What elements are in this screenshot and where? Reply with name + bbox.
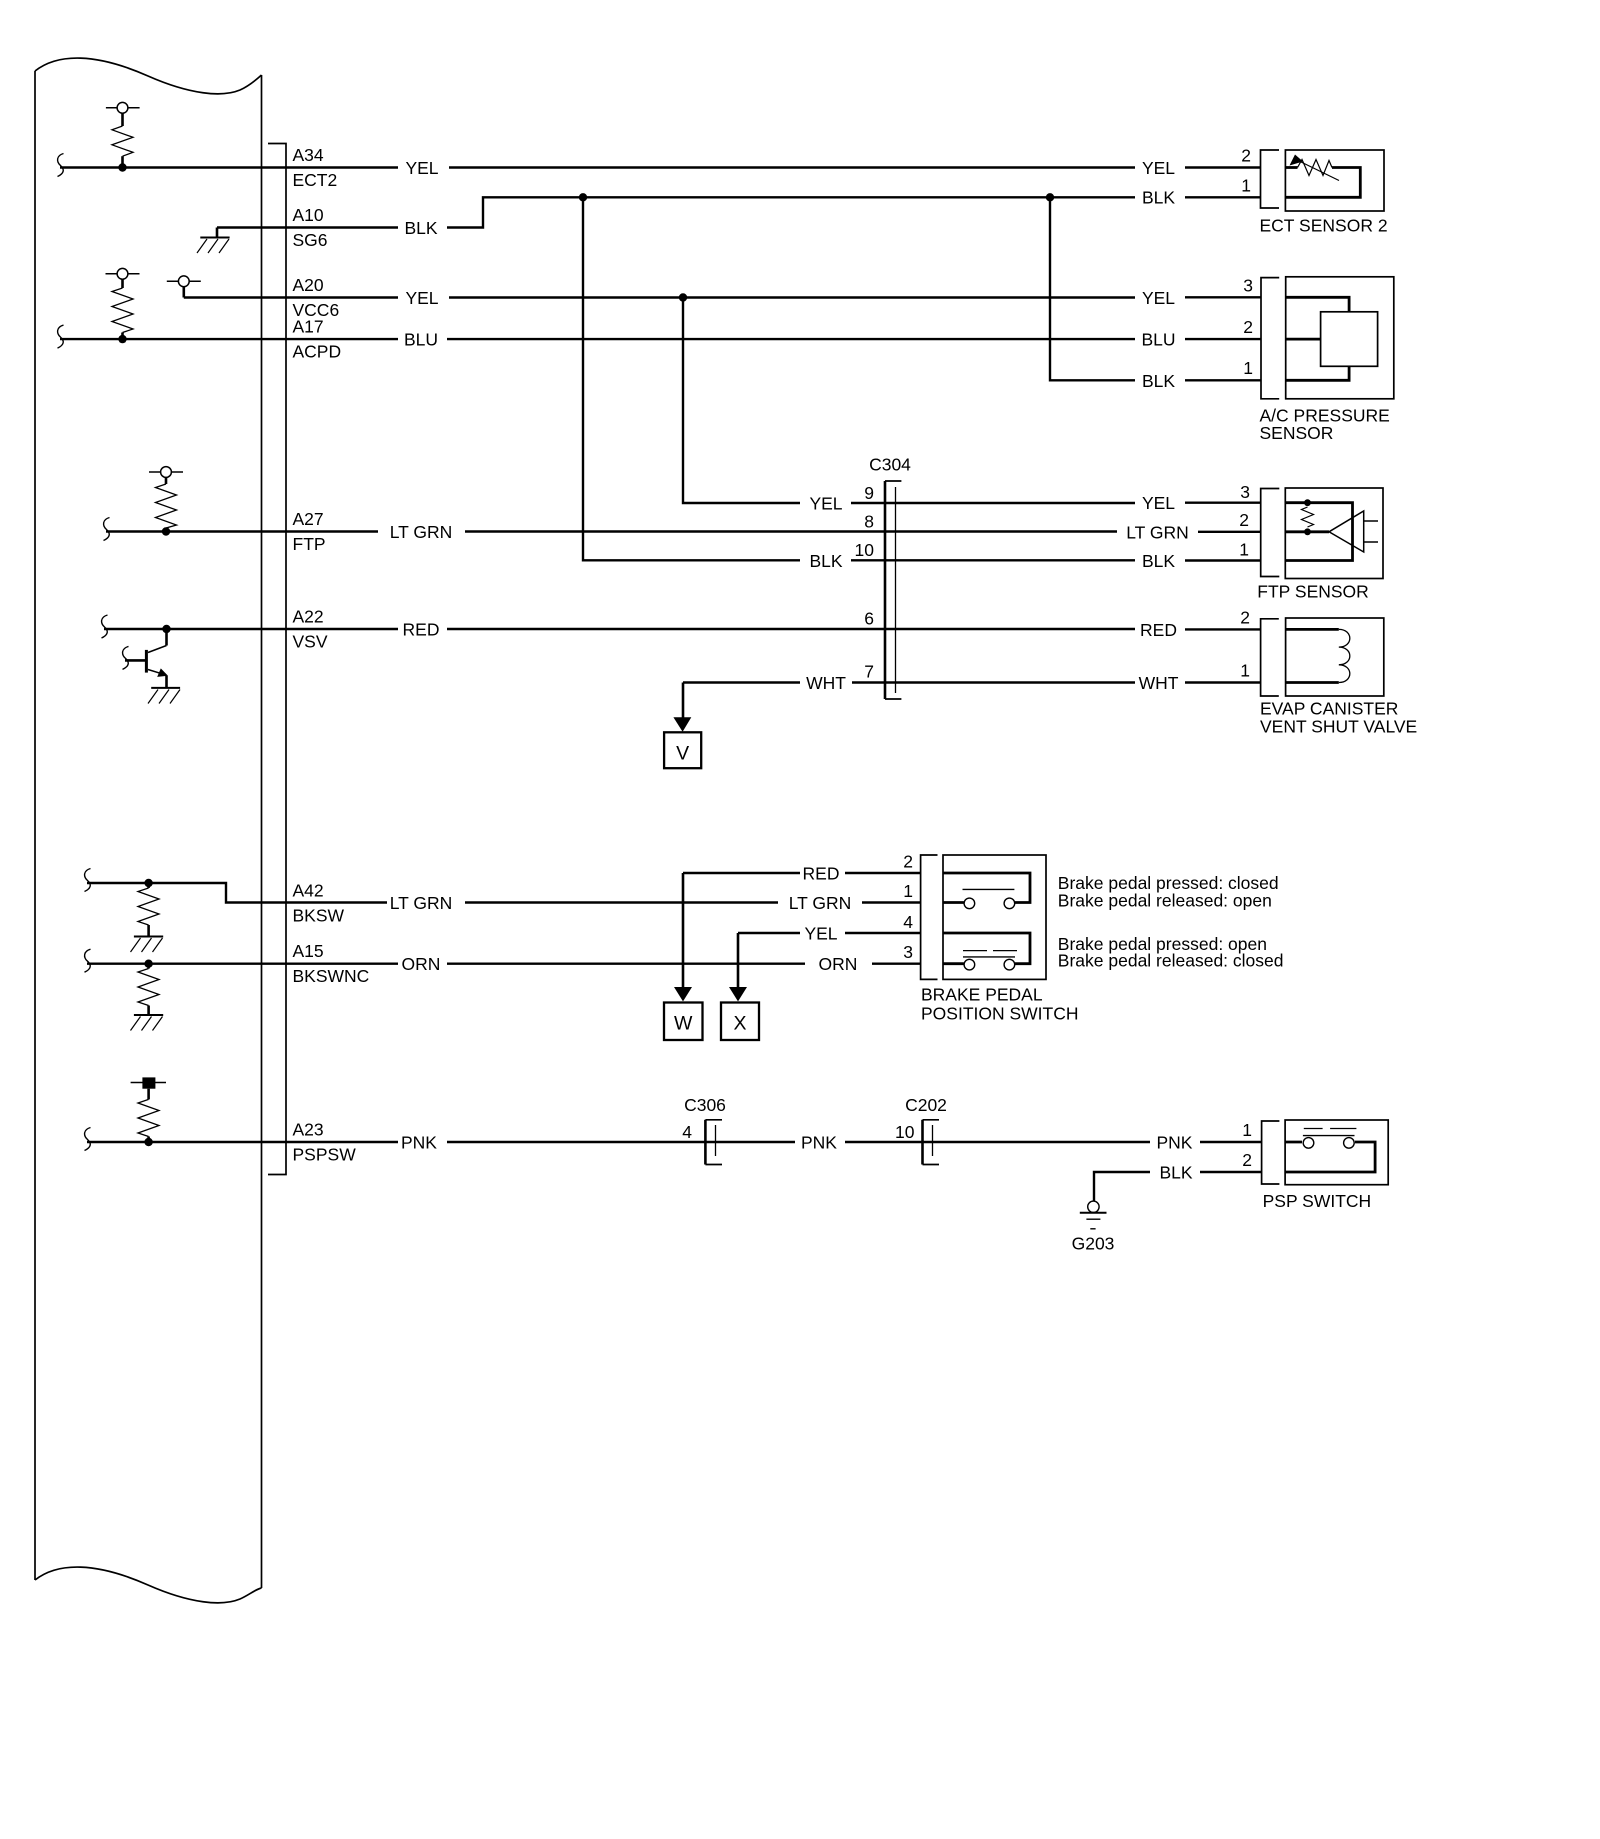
ignition feed resistor at A23	[131, 1077, 166, 1142]
arrow to page W	[674, 873, 692, 1001]
svg-text:BLU: BLU	[404, 330, 438, 350]
wire A27 LT GRN left	[106, 530, 378, 532]
svg-text:6: 6	[864, 609, 874, 629]
svg-text:ORN: ORN	[402, 954, 441, 974]
svg-text:YEL: YEL	[1142, 493, 1175, 513]
svg-text:10: 10	[895, 1122, 915, 1142]
connector bracket ECT sensor	[1261, 150, 1280, 208]
switch 2 normally-closed inside brake switch	[943, 933, 1030, 970]
ground at SG6 inside ECM	[197, 228, 230, 254]
junction dot BLK x1050	[1046, 193, 1054, 201]
pigtail transistor base	[123, 646, 129, 669]
svg-text:2: 2	[1240, 608, 1250, 628]
svg-text:A10: A10	[293, 205, 324, 225]
wire BLU to A/C sensor pin 2	[1185, 338, 1261, 340]
svg-text:3: 3	[1243, 276, 1253, 296]
svg-text:RED: RED	[803, 864, 840, 884]
svg-text:LT GRN: LT GRN	[1126, 522, 1189, 542]
PSP switch box	[1285, 1120, 1388, 1185]
wire A42 with step down	[87, 883, 387, 903]
svg-text:POSITION SWITCH: POSITION SWITCH	[921, 1004, 1079, 1024]
resistor pull-up at A34 with 5V terminal	[106, 102, 140, 167]
svg-text:BLK: BLK	[404, 218, 437, 238]
svg-text:1: 1	[1242, 1120, 1252, 1140]
svg-text:ECT SENSOR 2: ECT SENSOR 2	[1260, 216, 1388, 236]
EVAP canister vent shut valve box	[1286, 618, 1384, 696]
wire YEL to ECT sensor pin 2	[1185, 166, 1261, 168]
wire YEL through C304	[851, 502, 1135, 504]
svg-text:ORN: ORN	[819, 954, 858, 974]
wire LT GRN to FTP sensor pin 2	[1198, 531, 1261, 533]
junction dot A34	[118, 163, 126, 171]
svg-text:VSV: VSV	[293, 632, 328, 652]
wire RED segment to pin 2	[845, 872, 921, 874]
wire ORN segment to pin 3	[872, 963, 921, 965]
svg-text:A17: A17	[293, 317, 324, 337]
FTP sensor box	[1285, 488, 1383, 579]
wire YEL drop to C304 pin 9	[683, 298, 800, 504]
svg-text:PNK: PNK	[801, 1133, 837, 1153]
resistor to ground at A42	[138, 883, 159, 937]
connector bracket A/C pressure sensor	[1261, 278, 1279, 399]
svg-text:A23: A23	[293, 1120, 324, 1140]
svg-text:FTP: FTP	[293, 534, 326, 554]
svg-text:FTP SENSOR: FTP SENSOR	[1257, 582, 1369, 602]
wire YEL segment to pin 4	[845, 932, 921, 934]
wire A22 RED left	[104, 628, 398, 630]
ECT sensor 2 box	[1285, 150, 1384, 211]
wire BLK middle with step up	[447, 197, 1135, 227]
svg-text:1: 1	[1243, 358, 1253, 378]
ground at A42 resistor	[131, 937, 164, 953]
solenoid coil inside EVAP valve	[1286, 629, 1350, 682]
junction dot A27	[162, 527, 170, 535]
wire A15 ORN left	[87, 963, 398, 965]
svg-text:4: 4	[682, 1122, 692, 1142]
junction dot A22	[162, 625, 170, 633]
svg-text:3: 3	[903, 942, 913, 962]
connector bracket brake pedal switch	[921, 855, 938, 979]
pigtail A15	[85, 949, 91, 972]
svg-text:A34: A34	[293, 145, 324, 165]
junction dot YEL x683	[679, 293, 687, 301]
svg-text:G203: G203	[1072, 1234, 1115, 1254]
wire YEL to FTP sensor pin 3	[1185, 502, 1261, 504]
svg-text:YEL: YEL	[1142, 288, 1175, 308]
junction dot A15	[144, 960, 152, 968]
wire A20 YEL left	[184, 296, 398, 298]
svg-text:7: 7	[864, 662, 874, 682]
svg-text:BLK: BLK	[1142, 551, 1175, 571]
svg-text:A22: A22	[293, 607, 324, 627]
wire A10 BLK left	[217, 226, 398, 228]
brake pedal position switch box	[943, 855, 1046, 979]
svg-text:PSP SWITCH: PSP SWITCH	[1263, 1191, 1372, 1211]
wire RED from page W to switch pin 2	[683, 872, 800, 874]
arrow to page V	[673, 683, 691, 732]
wire A34 YEL left	[60, 166, 398, 168]
pigtail A42	[85, 869, 91, 892]
wire PNK through C202	[845, 1141, 1150, 1143]
pigtail A23	[85, 1128, 91, 1151]
junction dot A17	[118, 335, 126, 343]
svg-text:C306: C306	[684, 1095, 726, 1115]
svg-text:LT GRN: LT GRN	[390, 522, 453, 542]
svg-text:V: V	[676, 743, 689, 765]
wire LT GRN to switch pin 1	[862, 901, 921, 903]
thermistor inside ECT sensor 2	[1285, 155, 1360, 198]
wire WHT through C304	[852, 681, 1135, 683]
5V terminal at VCC6	[167, 276, 201, 298]
svg-text:C304: C304	[869, 455, 911, 475]
wire YEL middle	[449, 296, 1135, 298]
svg-text:YEL: YEL	[405, 288, 438, 308]
ground at transistor emitter	[148, 688, 180, 704]
svg-text:ACPD: ACPD	[293, 342, 342, 362]
svg-text:ECT2: ECT2	[293, 170, 338, 190]
wire A34 YEL middle	[449, 166, 1135, 168]
svg-text:PNK: PNK	[1157, 1133, 1193, 1153]
resistor to ground at A15	[138, 964, 159, 1015]
page reference box V	[664, 732, 701, 768]
svg-text:BKSWNC: BKSWNC	[293, 966, 370, 986]
svg-text:1: 1	[1240, 661, 1250, 681]
wire BLK to FTP sensor pin 1	[1185, 559, 1261, 561]
svg-text:8: 8	[864, 512, 874, 532]
wire LT GRN middle	[465, 901, 778, 903]
svg-text:VENT SHUT VALVE: VENT SHUT VALVE	[1260, 717, 1417, 737]
svg-text:Brake pedal released: closed: Brake pedal released: closed	[1058, 950, 1284, 970]
wire WHT from C304 pin 7	[683, 681, 800, 683]
wire YEL to A/C sensor pin 3	[1185, 296, 1261, 298]
page reference box X	[721, 1003, 759, 1041]
wire BLK to ECT sensor pin 1	[1185, 196, 1261, 198]
svg-text:9: 9	[864, 483, 874, 503]
svg-text:BLK: BLK	[1159, 1163, 1192, 1183]
svg-text:3: 3	[1240, 482, 1250, 502]
svg-text:YEL: YEL	[1142, 158, 1175, 178]
wire BLU middle	[447, 338, 1135, 340]
svg-text:SENSOR: SENSOR	[1260, 423, 1334, 443]
wire RED to EVAP valve pin 2	[1185, 628, 1261, 630]
svg-text:EVAP CANISTER: EVAP CANISTER	[1260, 699, 1398, 719]
switch contacts inside PSP switch	[1285, 1129, 1375, 1173]
svg-text:LT GRN: LT GRN	[390, 893, 453, 913]
svg-text:YEL: YEL	[405, 158, 438, 178]
svg-text:1: 1	[903, 881, 913, 901]
transistor Q1 at A22	[125, 629, 168, 688]
svg-text:10: 10	[855, 540, 875, 560]
svg-text:BRAKE PEDAL: BRAKE PEDAL	[921, 985, 1043, 1005]
arrow to page X	[729, 933, 747, 1001]
svg-text:PSPSW: PSPSW	[293, 1145, 357, 1165]
svg-text:BLK: BLK	[809, 551, 842, 571]
svg-text:BLK: BLK	[1142, 188, 1175, 208]
svg-text:Brake pedal released: open: Brake pedal released: open	[1058, 890, 1272, 910]
wire BLK drop to C304 pin 10	[583, 197, 800, 560]
svg-text:C202: C202	[905, 1095, 947, 1115]
svg-text:YEL: YEL	[809, 494, 842, 514]
svg-text:BKSW: BKSW	[293, 905, 345, 925]
wire PNK through C306	[447, 1141, 795, 1143]
ECM connector bracket	[268, 144, 286, 1175]
svg-text:2: 2	[903, 852, 913, 872]
svg-text:LT GRN: LT GRN	[789, 893, 852, 913]
svg-text:A27: A27	[293, 509, 324, 529]
svg-text:PNK: PNK	[401, 1133, 437, 1153]
wire BLK segment to pin 1	[1185, 379, 1261, 381]
wire YEL from page X to switch pin 4	[738, 932, 800, 934]
connector bracket EVAP valve	[1261, 619, 1279, 696]
svg-text:WHT: WHT	[1139, 673, 1179, 693]
wire WHT to EVAP valve pin 1	[1185, 681, 1261, 683]
svg-text:4: 4	[903, 912, 913, 932]
wire ORN middle	[447, 963, 805, 965]
wire RED middle through C304 pin 6	[447, 628, 1135, 630]
svg-text:A15: A15	[293, 941, 324, 961]
svg-text:X: X	[733, 1013, 746, 1035]
wire BLK to A/C sensor pin 1	[1050, 197, 1135, 380]
svg-text:2: 2	[1239, 510, 1249, 530]
svg-text:WHT: WHT	[806, 673, 846, 693]
pigtail A27	[104, 518, 110, 541]
connector C202	[923, 1120, 940, 1165]
svg-text:RED: RED	[403, 620, 440, 640]
svg-text:A20: A20	[293, 275, 324, 295]
svg-text:1: 1	[1239, 540, 1249, 560]
svg-text:2: 2	[1242, 1150, 1252, 1170]
wire BLK through C304	[851, 559, 1135, 561]
switch 1 normally-open inside brake switch	[943, 873, 1030, 909]
junction dot A42	[144, 879, 152, 887]
pigtail A17	[58, 325, 64, 348]
svg-text:W: W	[674, 1013, 693, 1035]
FTP sensor inner circuit	[1285, 499, 1378, 560]
connector bracket PSP switch	[1262, 1121, 1280, 1184]
pigtail A22	[102, 615, 108, 638]
wire PNK to PSP switch pin 1	[1200, 1141, 1262, 1143]
junction dot BLK x583	[579, 193, 587, 201]
svg-text:BLK: BLK	[1142, 371, 1175, 391]
svg-text:RED: RED	[1140, 620, 1177, 640]
wire BLK segment to pin 2	[1200, 1171, 1262, 1173]
ground G203	[1080, 1201, 1107, 1229]
A/C pressure sensor inner element	[1286, 297, 1378, 380]
svg-text:2: 2	[1243, 317, 1253, 337]
pigtail A34	[58, 154, 64, 177]
svg-text:A42: A42	[293, 880, 324, 900]
connector bracket FTP sensor	[1261, 489, 1280, 577]
resistor pull-up at A17 with 5V terminal	[106, 268, 140, 339]
svg-text:SG6: SG6	[293, 230, 328, 250]
wire BLK from G203 to PSP switch pin 2	[1094, 1172, 1150, 1201]
resistor pull-up at A27 with 5V terminal	[149, 467, 183, 532]
wire A17 BLU left	[60, 338, 398, 340]
connector C306	[705, 1120, 722, 1165]
svg-text:YEL: YEL	[804, 924, 837, 944]
page reference box W	[664, 1003, 703, 1041]
ground at A15 resistor	[131, 1015, 164, 1031]
wire A23 PNK left	[87, 1141, 398, 1143]
A/C pressure sensor box	[1286, 277, 1394, 399]
svg-text:2: 2	[1241, 146, 1251, 166]
ECM block torn-paper outline	[35, 58, 262, 1603]
connector C304	[885, 481, 901, 699]
svg-text:1: 1	[1241, 175, 1251, 195]
wire LT GRN middle	[465, 530, 1117, 532]
svg-text:BLU: BLU	[1141, 330, 1175, 350]
junction dot A23	[144, 1138, 152, 1146]
